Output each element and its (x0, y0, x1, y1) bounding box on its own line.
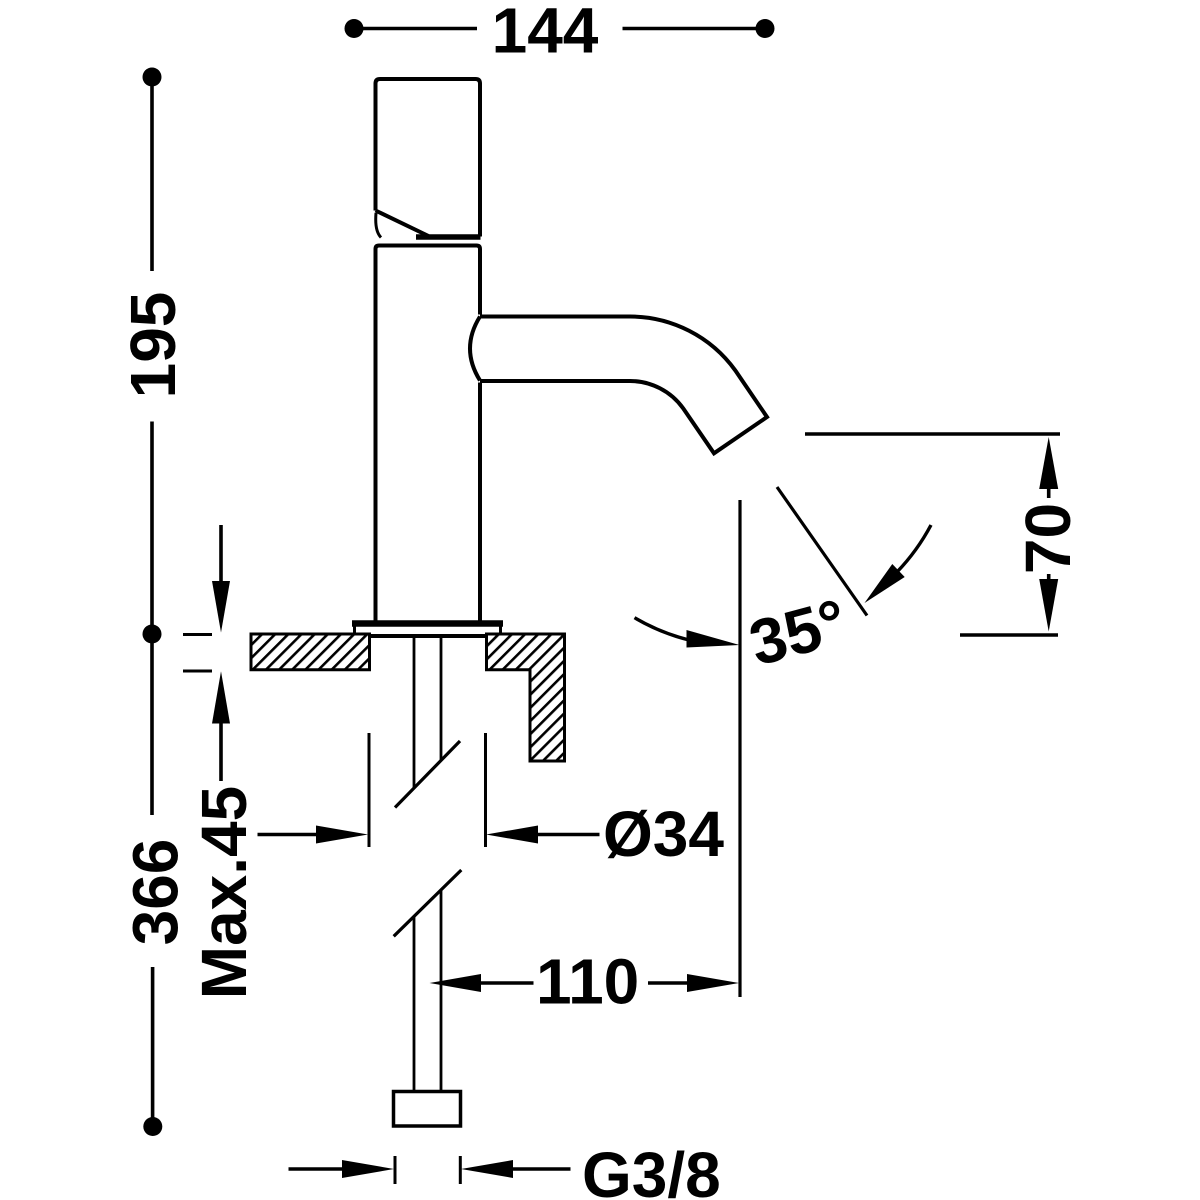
svg-text:G3/8: G3/8 (582, 1139, 721, 1200)
svg-text:366: 366 (120, 839, 192, 946)
svg-text:195: 195 (117, 292, 189, 399)
svg-text:Max.45: Max.45 (188, 786, 260, 999)
svg-text:110: 110 (536, 946, 639, 1018)
svg-text:Ø34: Ø34 (603, 798, 724, 870)
svg-text:70: 70 (1012, 503, 1084, 574)
svg-text:144: 144 (492, 0, 599, 67)
